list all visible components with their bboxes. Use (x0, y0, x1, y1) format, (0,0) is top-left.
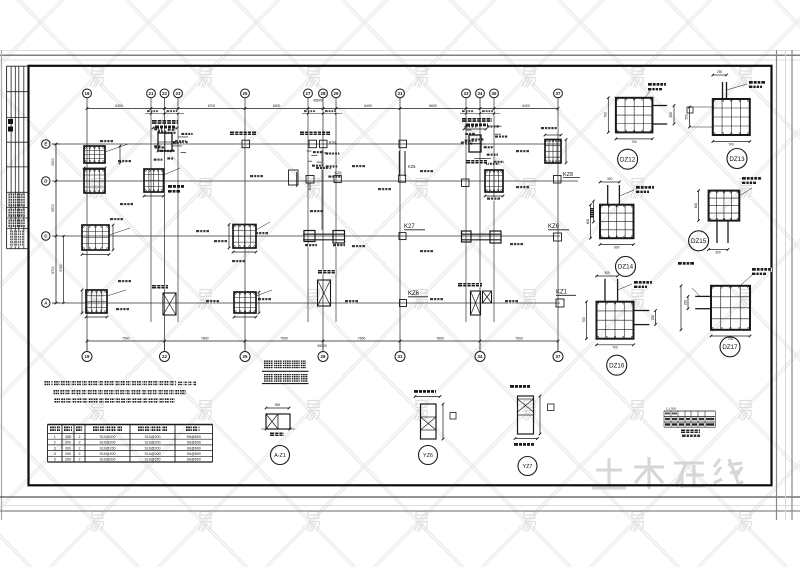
svg-text:19: 19 (85, 354, 90, 359)
svg-text:2: 2 (79, 458, 81, 462)
svg-text:D: D (44, 179, 47, 184)
svg-text:250: 250 (65, 452, 71, 456)
svg-text:250: 250 (651, 315, 655, 321)
svg-text:250: 250 (684, 300, 688, 306)
svg-text:S10@200: S10@200 (99, 452, 115, 456)
svg-text:S6@600: S6@600 (187, 435, 201, 439)
svg-text:19: 19 (85, 91, 90, 96)
svg-text:K25: K25 (335, 170, 343, 175)
svg-text:37: 37 (556, 354, 561, 359)
svg-text:S10@200: S10@200 (144, 435, 160, 439)
svg-text:7500: 7500 (358, 336, 366, 340)
svg-text:DZ15: DZ15 (691, 238, 707, 245)
svg-text:350: 350 (65, 435, 71, 439)
svg-text:28: 28 (321, 91, 326, 96)
svg-text:3300: 3300 (51, 158, 55, 166)
svg-text:23: 23 (176, 91, 181, 96)
svg-text:6700: 6700 (51, 266, 55, 274)
svg-text:28: 28 (321, 354, 326, 359)
svg-text:DZ12: DZ12 (620, 157, 636, 164)
svg-text:7800: 7800 (201, 336, 209, 340)
svg-text:K24: K24 (329, 140, 337, 145)
svg-text:5500: 5500 (51, 204, 55, 212)
svg-text:6400: 6400 (522, 104, 530, 108)
svg-text:6300: 6300 (273, 104, 281, 108)
svg-text:KZ1: KZ1 (556, 290, 568, 296)
svg-text:250: 250 (717, 70, 723, 74)
svg-text:22: 22 (162, 91, 167, 96)
svg-text:K27: K27 (404, 224, 415, 230)
svg-text:6700: 6700 (208, 104, 216, 108)
svg-text:6600: 6600 (429, 104, 437, 108)
svg-text:22: 22 (162, 354, 167, 359)
svg-text:34: 34 (478, 91, 483, 96)
svg-text:900: 900 (275, 403, 281, 407)
svg-text:700: 700 (604, 112, 608, 118)
svg-text:YZ7: YZ7 (523, 464, 533, 470)
svg-text:6300: 6300 (115, 104, 123, 108)
svg-text:2: 2 (79, 452, 81, 456)
svg-text:33: 33 (464, 91, 469, 96)
svg-text:4: 4 (54, 452, 56, 456)
svg-text:37: 37 (556, 91, 561, 96)
svg-text:5: 5 (54, 458, 56, 462)
svg-text:S10@200: S10@200 (144, 452, 160, 456)
svg-text:S6@600: S6@600 (187, 452, 201, 456)
svg-text:S10@150: S10@150 (144, 458, 160, 462)
svg-text:K26: K26 (308, 183, 312, 190)
svg-text:300: 300 (65, 446, 71, 450)
svg-text:6400: 6400 (364, 104, 372, 108)
svg-text:KZ6: KZ6 (408, 291, 420, 297)
svg-text:DZ13: DZ13 (729, 156, 745, 163)
svg-text:7500: 7500 (280, 336, 288, 340)
svg-text:1: 1 (54, 435, 56, 439)
svg-text:250: 250 (65, 458, 71, 462)
svg-text:700: 700 (631, 140, 637, 144)
svg-text:7800: 7800 (436, 336, 444, 340)
svg-text:21: 21 (149, 91, 154, 96)
svg-text:700: 700 (582, 317, 586, 323)
svg-text:31: 31 (398, 91, 403, 96)
svg-text:E: E (44, 142, 47, 147)
svg-text:S10@150: S10@150 (99, 446, 115, 450)
svg-text:KZ6: KZ6 (548, 224, 560, 230)
svg-text:2: 2 (79, 435, 81, 439)
svg-text:27: 27 (306, 91, 311, 96)
svg-text:DZ14: DZ14 (618, 264, 634, 271)
svg-text:45600: 45600 (313, 99, 323, 103)
svg-text:A-Z1: A-Z1 (274, 453, 286, 459)
svg-text:300: 300 (669, 112, 673, 118)
svg-text:600: 600 (694, 203, 698, 209)
svg-text:300: 300 (604, 271, 610, 275)
svg-text:2: 2 (79, 446, 81, 450)
svg-text:300: 300 (65, 441, 71, 445)
svg-text:1:1.500: 1:1.500 (666, 407, 676, 411)
svg-text:7500: 7500 (122, 336, 130, 340)
svg-text:300: 300 (715, 250, 721, 254)
svg-text:K25: K25 (408, 164, 416, 169)
svg-text:6700: 6700 (59, 264, 63, 271)
svg-text:S6@600: S6@600 (187, 458, 201, 462)
svg-text:S10@200: S10@200 (144, 441, 160, 445)
svg-text:S10@200: S10@200 (99, 458, 115, 462)
svg-text:31: 31 (398, 354, 403, 359)
svg-text:7500: 7500 (515, 336, 523, 340)
svg-text:29: 29 (334, 91, 339, 96)
svg-text:KZ8: KZ8 (563, 172, 573, 178)
svg-text:25: 25 (243, 91, 248, 96)
svg-text:700: 700 (728, 142, 734, 146)
svg-text:34: 34 (478, 354, 483, 359)
svg-text:DZ16: DZ16 (609, 363, 625, 370)
svg-text:600: 600 (614, 245, 620, 249)
svg-text:35: 35 (492, 91, 497, 96)
svg-text:300: 300 (607, 177, 613, 181)
svg-text:2: 2 (79, 441, 81, 445)
svg-text:S10@200: S10@200 (99, 441, 115, 445)
svg-text:DZ17: DZ17 (722, 344, 738, 351)
svg-text:2: 2 (54, 441, 56, 445)
svg-text:S6@600: S6@600 (187, 446, 201, 450)
svg-text:600: 600 (586, 219, 590, 225)
svg-text:25: 25 (243, 354, 248, 359)
svg-text:45000: 45000 (317, 344, 327, 348)
svg-text:S10@200: S10@200 (144, 446, 160, 450)
svg-text:YZ6: YZ6 (423, 453, 433, 459)
svg-text:350: 350 (685, 114, 689, 120)
svg-text:S6@600: S6@600 (187, 441, 201, 445)
svg-text:3: 3 (54, 446, 56, 450)
svg-text:S10@200: S10@200 (99, 435, 115, 439)
svg-text:700: 700 (612, 346, 618, 350)
